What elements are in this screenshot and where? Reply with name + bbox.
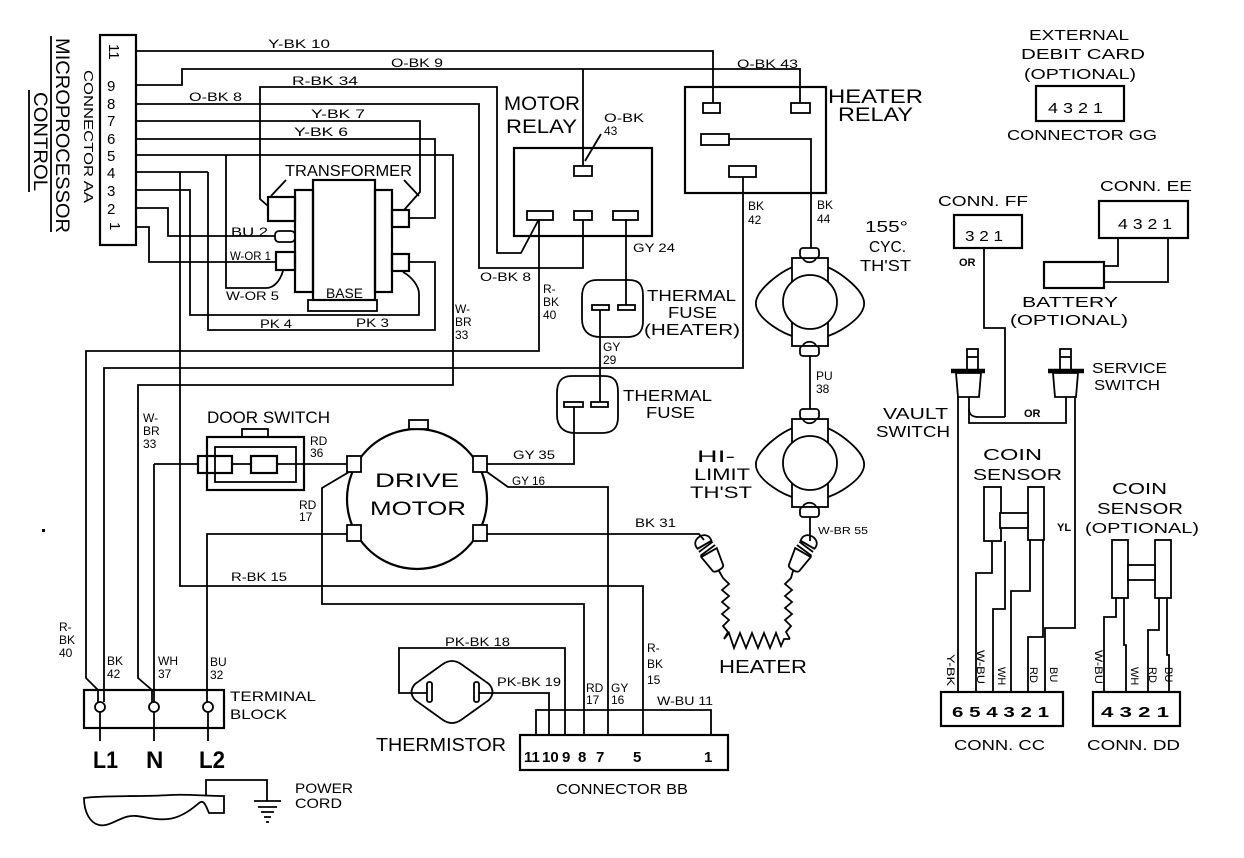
svg-text:43: 43 (604, 124, 618, 138)
drive motor LL terminal (347, 525, 361, 541)
svg-text:HEATER: HEATER (719, 657, 807, 677)
thermal fuse right bar (591, 402, 608, 407)
thermal fuse (heater) left bar (592, 305, 609, 310)
transformer BU2 terminal (275, 231, 295, 242)
svg-text:3: 3 (107, 183, 115, 200)
svg-text:29: 29 (603, 353, 617, 367)
svg-text:BU 2: BU 2 (231, 225, 268, 239)
wire (coin sensor to CC pin 3) (1011, 540, 1030, 692)
coin sensor optional fork (1112, 540, 1171, 598)
battery box (1044, 262, 1104, 288)
svg-text:1: 1 (106, 222, 123, 230)
wire PK 4 (to transformer LR terminal) (208, 172, 435, 330)
wire BK 44 (heater relay ML to 155 thermostat) (729, 139, 811, 248)
svg-text:37: 37 (158, 667, 172, 681)
svg-text:PU: PU (816, 369, 833, 383)
svg-text:W-OR 1: W-OR 1 (230, 249, 271, 263)
svg-text:7: 7 (107, 113, 115, 130)
vault switch (951, 349, 985, 397)
door switch inner box (215, 447, 296, 482)
svg-text:GY: GY (603, 340, 620, 354)
thermal fuse (heater) blob (582, 280, 643, 337)
svg-text:BU: BU (1047, 667, 1059, 682)
wire EE pin4 to battery (1104, 238, 1118, 266)
wire between vault and service switch bottoms (969, 397, 1066, 423)
wire O-BK 9 / O-BK 43 (pin 9 to motor relay top and heater relay TR terminal) (136, 69, 800, 166)
wire BK 42 (heater relay lower terminal to L1 post) (104, 177, 743, 702)
svg-text:4 3 2 1: 4 3 2 1 (1048, 100, 1103, 117)
wire W-BU 11 (BB pin 11 to pin 1) (536, 710, 711, 735)
wire BK 31 (motor LR to left heater plug) (487, 534, 704, 540)
wire OR from conn FF to switch net (984, 248, 1005, 417)
door switch middle contact (251, 456, 277, 473)
svg-text:BK: BK (107, 654, 123, 668)
svg-text:CONN. DD: CONN. DD (1087, 737, 1180, 754)
svg-text:O-BK 43: O-BK 43 (737, 57, 798, 71)
svg-text:GY 24: GY 24 (633, 241, 675, 255)
svg-text:40: 40 (543, 308, 557, 322)
svg-text:5: 5 (107, 148, 115, 165)
transformer W-OR terminal (276, 252, 295, 270)
svg-text:YL: YL (1057, 522, 1071, 534)
motor relay BL terminal (527, 211, 553, 220)
svg-text:O-BK 8: O-BK 8 (480, 270, 531, 284)
svg-text:15: 15 (647, 673, 661, 687)
wire PU 38 (155 thermostat to hi-limit) (809, 356, 811, 409)
svg-text:(OPTIONAL): (OPTIONAL) (1010, 312, 1128, 329)
svg-text:DOOR SWITCH: DOOR SWITCH (207, 408, 330, 427)
svg-text:WH: WH (1128, 667, 1140, 685)
wire WH (optional sensor to DD pin 3) (1124, 598, 1126, 692)
thermal fuse blob (557, 376, 618, 433)
svg-text:33: 33 (455, 328, 469, 342)
svg-text:FUSE: FUSE (668, 305, 717, 322)
thermistor diamond (412, 661, 493, 723)
svg-text:11: 11 (105, 44, 122, 60)
wire pin 4 / R-BK 15 (pin 4 down to connector BB pin 5) (136, 172, 643, 735)
connector BB box (520, 735, 728, 770)
wire R-BK 34 (transformer UL terminal to motor relay BL terminal) (260, 87, 539, 253)
thermal fuse left bar (564, 402, 583, 407)
svg-text:38: 38 (816, 382, 830, 396)
svg-text:BR: BR (455, 315, 472, 329)
svg-text:SWITCH: SWITCH (1094, 377, 1160, 394)
wire Y-BK 6 (pin 6 to transformer UR terminal) (136, 139, 435, 218)
svg-text:R-: R- (543, 282, 556, 296)
wire YL (service switch to conn CC pin 1) (1045, 397, 1075, 692)
motor relay BR terminal (613, 211, 638, 220)
drive motor top tab (409, 420, 428, 429)
transformer UL terminal (268, 197, 295, 221)
svg-text:PK-BK 19: PK-BK 19 (497, 675, 561, 689)
svg-text:VAULT: VAULT (883, 406, 948, 423)
svg-text:LIMIT: LIMIT (694, 465, 750, 484)
conn CC box (941, 692, 1063, 726)
svg-text:W-: W- (143, 411, 158, 425)
svg-text:SENSOR: SENSOR (1097, 501, 1183, 518)
wire Y-BK 10 (pin 11 to heater relay TL terminal) (136, 51, 713, 103)
rotated wire labels at conn DD (1092, 650, 1174, 685)
svg-text:SWITCH: SWITCH (876, 424, 950, 441)
svg-text:RD: RD (1146, 667, 1158, 683)
svg-text:(OPTIONAL): (OPTIONAL) (1085, 520, 1199, 537)
svg-text:CONN. CC: CONN. CC (954, 737, 1045, 754)
svg-text:(HEATER): (HEATER) (644, 322, 740, 339)
svg-text:4: 4 (107, 165, 115, 182)
svg-text:CONTROL: CONTROL (29, 92, 50, 191)
155 deg cyc thermostat (756, 248, 864, 356)
svg-text:R-: R- (59, 620, 72, 634)
svg-text:11: 11 (524, 749, 540, 766)
heater relay ML terminal (701, 134, 729, 145)
svg-text:DRIVE: DRIVE (375, 471, 459, 492)
svg-text:O-BK 8: O-BK 8 (189, 90, 242, 104)
svg-text:PK 3: PK 3 (356, 316, 389, 330)
rotated wire labels at conn CC (944, 650, 1059, 687)
svg-text:9: 9 (562, 749, 570, 766)
svg-text:CORD: CORD (295, 795, 342, 811)
svg-text:SENSOR: SENSOR (973, 467, 1062, 484)
terminal block box (84, 690, 224, 728)
wire vault switch to OR junction (969, 397, 1005, 417)
transformer base plate (308, 300, 377, 311)
svg-text:THERMAL: THERMAL (647, 288, 736, 305)
svg-text:BASE: BASE (326, 285, 363, 301)
svg-text:THERMISTOR: THERMISTOR (376, 735, 506, 755)
motor relay top terminal (574, 166, 592, 176)
svg-text:RELAY: RELAY (838, 105, 913, 126)
wire BU 2 (pin 2 to transformer BU2 terminal) (136, 208, 275, 236)
svg-text:2: 2 (107, 201, 115, 218)
svg-text:WH: WH (158, 654, 178, 668)
terminal block post L1 (95, 702, 105, 712)
wire RD (coin sensor to CC pin 2) (1028, 540, 1043, 692)
heater relay lower terminal (729, 166, 756, 177)
heater relay TL terminal (703, 103, 720, 113)
svg-text:CONNECTOR AA: CONNECTOR AA (81, 70, 96, 203)
svg-text:42: 42 (748, 213, 762, 227)
svg-text:WH: WH (995, 667, 1007, 685)
svg-text:6: 6 (107, 131, 115, 148)
wire W-OR 5 (transformer terminal down-left) (226, 155, 283, 288)
svg-text:6 5 4 3 2 1: 6 5 4 3 2 1 (952, 704, 1049, 721)
svg-text:BATTERY: BATTERY (1022, 294, 1118, 311)
left heater plug (692, 532, 727, 575)
motor relay BM terminal (574, 211, 592, 220)
svg-text:DEBIT CARD: DEBIT CARD (1021, 46, 1145, 63)
drive motor LR terminal (473, 525, 487, 541)
svg-text:17: 17 (299, 510, 313, 524)
wire GY 16 (motor UR to connector BB pin 7) (487, 472, 608, 735)
svg-text:R-: R- (647, 641, 660, 655)
connector AA pin numbers (105, 44, 123, 230)
conn FF box (954, 215, 1022, 248)
motor relay box (514, 148, 652, 236)
svg-text:MOTOR: MOTOR (370, 499, 466, 520)
svg-text:W-: W- (455, 302, 470, 316)
svg-text:10: 10 (542, 749, 559, 766)
thermistor left bar (427, 682, 432, 702)
svg-text:3 2 1: 3 2 1 (965, 228, 1003, 245)
wire W-BU (optional sensor to DD pin 4) (1104, 598, 1116, 692)
stray dot (42, 529, 45, 532)
transformer label leader lines (271, 180, 419, 196)
terminal labels L1 N L2 (93, 747, 225, 774)
svg-text:BLOCK: BLOCK (230, 706, 288, 722)
svg-text:R-BK 15: R-BK 15 (231, 570, 287, 584)
wire EE pin1 to battery (1104, 238, 1168, 282)
left heater lead zigzag (719, 571, 729, 639)
thermistor right bar (474, 682, 479, 702)
wire GY 24 (motor relay BR to thermal fuse heater) (625, 219, 627, 305)
svg-text:W-BR 55: W-BR 55 (818, 526, 869, 537)
O-BK 43 label leader (585, 134, 601, 161)
wire W-BR 33 (pin 5 down to N post) (136, 155, 453, 702)
wire W-BR 55 (hi-limit to right heater plug) (809, 517, 811, 541)
svg-text:GY 35: GY 35 (513, 448, 555, 462)
door switch outer box (207, 437, 304, 490)
svg-text:W-BU: W-BU (1092, 650, 1104, 684)
wire GY 29 (between thermal fuses) (599, 310, 601, 402)
drive motor UR terminal (473, 456, 487, 472)
svg-text:Y-BK 10: Y-BK 10 (268, 37, 330, 51)
svg-text:5: 5 (633, 749, 641, 766)
svg-text:HI-: HI- (697, 447, 735, 466)
heater relay TR terminal (791, 103, 810, 113)
svg-text:TH'ST: TH'ST (690, 483, 752, 502)
svg-text:W-BU 11: W-BU 11 (657, 694, 713, 708)
svg-text:TH'ST: TH'ST (860, 258, 911, 275)
wire RD (optional sensor to DD pin 2) (1148, 598, 1159, 692)
svg-text:BK: BK (748, 199, 764, 213)
svg-text:TERMINAL: TERMINAL (230, 688, 316, 704)
svg-text:N: N (146, 747, 163, 774)
svg-text:BK: BK (817, 198, 833, 212)
terminal block post L2 (203, 702, 213, 712)
wire Y-BK 7 (pin 7 to transformer UR terminal) (136, 121, 420, 210)
svg-text:4 3 2 1: 4 3 2 1 (1101, 704, 1169, 721)
ground symbol (254, 801, 281, 822)
svg-text:7: 7 (596, 749, 604, 766)
coin sensor fork (984, 487, 1044, 541)
svg-text:8: 8 (578, 749, 586, 766)
right heater lead zigzag (785, 571, 793, 639)
svg-text:BR: BR (143, 424, 160, 438)
svg-text:THERMAL: THERMAL (623, 388, 712, 405)
svg-text:OR: OR (1024, 408, 1041, 420)
svg-text:BK: BK (543, 295, 559, 309)
svg-text:L2: L2 (199, 747, 225, 774)
transformer body (313, 180, 375, 300)
svg-text:BU: BU (210, 655, 227, 669)
terminal block post N (149, 702, 159, 712)
svg-text:44: 44 (817, 212, 831, 226)
thermal fuse (heater) right bar (618, 305, 635, 310)
svg-text:(OPTIONAL): (OPTIONAL) (1024, 66, 1136, 83)
svg-text:36: 36 (310, 446, 324, 460)
svg-text:40: 40 (59, 646, 73, 660)
wire W-OR 1 (pin 1 to transformer W-OR terminal) (136, 227, 276, 262)
svg-text:O-BK: O-BK (604, 111, 644, 125)
heater relay box (685, 87, 826, 193)
wire R-BK 40 (motor relay BL terminal to L1 post) (86, 219, 539, 702)
wire O-BK 8 (pin 8 to motor relay BM terminal) (136, 104, 583, 268)
svg-text:17: 17 (586, 693, 600, 707)
svg-text:CYC.: CYC. (869, 239, 906, 256)
svg-text:4 3 2 1: 4 3 2 1 (1118, 216, 1172, 233)
svg-text:Y-BK 6: Y-BK 6 (294, 125, 348, 139)
wire labels middle (59, 411, 869, 708)
svg-text:W-OR 5: W-OR 5 (226, 289, 279, 303)
label CONTROL (vertical) (28, 90, 30, 192)
wire PK-BK 18 (thermistor to BB pin 9) (399, 648, 565, 735)
svg-text:COIN: COIN (983, 447, 1042, 464)
svg-text:MICROPROCESSOR: MICROPROCESSOR (51, 38, 72, 233)
door switch top tab (242, 429, 268, 437)
svg-text:BU: BU (1162, 667, 1174, 682)
label MICROPROCESSOR (vertical) (50, 36, 52, 232)
svg-text:COIN: COIN (1112, 481, 1167, 498)
svg-text:GY 16: GY 16 (512, 474, 545, 488)
svg-text:8: 8 (107, 96, 115, 113)
wire labels top (189, 37, 833, 396)
heater coil (724, 633, 790, 648)
svg-text:1: 1 (704, 749, 712, 766)
svg-text:CONNECTOR GG: CONNECTOR GG (1007, 127, 1157, 144)
svg-text:TRANSFORMER: TRANSFORMER (285, 163, 412, 180)
wire WH 37 (door switch to N post) (153, 464, 155, 702)
svg-text:155°: 155° (865, 219, 908, 236)
svg-text:PK-BK 18: PK-BK 18 (445, 635, 510, 649)
svg-text:RELAY: RELAY (506, 117, 577, 138)
drive motor UL terminal (347, 456, 361, 472)
svg-text:BK 31: BK 31 (635, 516, 676, 530)
wire W-BU (coin sensor to CC pin 5) (976, 541, 992, 692)
wire WH (coin sensor to CC pin 4) (993, 541, 1005, 692)
svg-text:POWER: POWER (295, 780, 353, 796)
svg-text:O-BK 9: O-BK 9 (391, 56, 443, 70)
wire GY 35 (motor UR to thermal fuse) (487, 407, 574, 464)
svg-text:32: 32 (210, 668, 224, 682)
transformer UR terminal (392, 210, 409, 227)
wire ground lead from power cord to ground (206, 780, 267, 801)
svg-text:W-BU: W-BU (974, 650, 986, 684)
drive motor circle (347, 429, 487, 569)
svg-text:RD: RD (1027, 667, 1039, 683)
wire RD 36 (door switch to drive motor UL terminal) (154, 463, 347, 465)
svg-text:BK: BK (59, 633, 75, 647)
svg-text:R-BK 34: R-BK 34 (292, 74, 358, 88)
connector AA box (100, 35, 136, 245)
transformer left strip (295, 190, 313, 292)
svg-text:33: 33 (143, 437, 157, 451)
svg-text:16: 16 (611, 693, 625, 707)
svg-text:42: 42 (107, 667, 121, 681)
svg-text:L1: L1 (93, 747, 118, 774)
svg-text:EXTERNAL: EXTERNAL (1029, 27, 1129, 44)
hi-limit thermostat (756, 409, 864, 517)
wire RD 17 (motor UL terminal to connector BB pin 8) (322, 472, 584, 735)
transformer right strip (375, 190, 392, 292)
svg-text:9: 9 (107, 78, 115, 95)
svg-text:OR: OR (959, 257, 976, 269)
svg-text:CONNECTOR BB: CONNECTOR BB (556, 781, 688, 798)
svg-text:PK 4: PK 4 (260, 317, 292, 331)
svg-text:Y-BK 7: Y-BK 7 (311, 107, 365, 121)
svg-text:Y-BK: Y-BK (944, 654, 956, 687)
wire BU 32 (motor LL terminal to L2 post) (207, 534, 347, 702)
conn EE box (1099, 201, 1188, 238)
door switch left terminal (198, 456, 232, 473)
OR / YL labels (959, 257, 1071, 534)
wire PK-BK 19 (thermistor to BB pin 10) (479, 693, 549, 735)
svg-text:BK: BK (647, 657, 663, 671)
svg-text:MOTOR: MOTOR (504, 94, 580, 115)
conn DD box (1093, 692, 1180, 726)
external debit card box connector GG (1036, 86, 1124, 121)
service switch (1048, 349, 1084, 397)
connector pin numerals (524, 100, 1172, 766)
svg-text:CONN. EE: CONN. EE (1100, 178, 1192, 195)
wire Y-BK (vault switch to conn CC pin 6) (957, 397, 959, 692)
svg-text:FUSE: FUSE (646, 405, 695, 422)
wire BU (optional sensor to DD pin 1) (1167, 598, 1169, 692)
wire PK 3 (pin 3 to transformer LR terminal) (136, 190, 419, 315)
svg-text:SERVICE: SERVICE (1092, 360, 1167, 377)
power cord blob (84, 795, 224, 826)
svg-text:CONN. FF: CONN. FF (938, 193, 1028, 210)
transformer LR terminal (392, 254, 409, 271)
component titles (370, 87, 923, 520)
right heater plug (785, 532, 820, 575)
